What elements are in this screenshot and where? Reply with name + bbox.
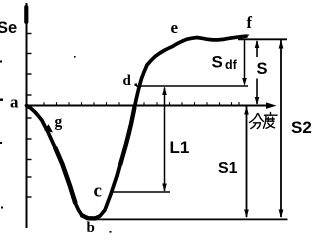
d-level line bbox=[136, 85, 248, 87]
f-level top line bbox=[238, 38, 287, 40]
dimension line Sdf bbox=[242, 40, 247, 86]
svg-text:e: e bbox=[171, 18, 179, 37]
svg-text:g: g bbox=[55, 114, 63, 131]
svg-text:S1: S1 bbox=[218, 160, 238, 177]
label 分度 (drawn strokes) bbox=[250, 113, 278, 129]
curve direction arrow near g bbox=[44, 124, 53, 132]
svg-text:L1: L1 bbox=[170, 138, 190, 157]
c-level line bbox=[111, 191, 170, 193]
svg-text:f: f bbox=[247, 13, 253, 32]
svg-text:S: S bbox=[257, 60, 268, 78]
svg-text:S2: S2 bbox=[291, 118, 312, 137]
y-axis bbox=[25, 3, 27, 228]
main curve bbox=[27, 36, 247, 218]
x-axis ticks bbox=[44, 102, 239, 105]
svg-text:d: d bbox=[123, 73, 132, 89]
dimension line S2 bbox=[279, 40, 284, 218]
y-axis ticks bbox=[27, 34, 32, 198]
dimension line S1 bbox=[244, 106, 249, 218]
svg-text:b: b bbox=[87, 220, 95, 236]
dimension line S bbox=[255, 40, 260, 105]
dimension line L1 bbox=[162, 87, 167, 193]
svg-text:Se: Se bbox=[0, 19, 17, 37]
svg-text:df: df bbox=[225, 58, 238, 72]
svg-text:a: a bbox=[10, 93, 19, 112]
svg-text:S: S bbox=[212, 53, 223, 72]
svg-text:c: c bbox=[94, 181, 102, 202]
edge noise specks bbox=[0, 34, 249, 232]
x-axis bbox=[27, 102, 277, 109]
b-level bottom line bbox=[88, 218, 288, 220]
